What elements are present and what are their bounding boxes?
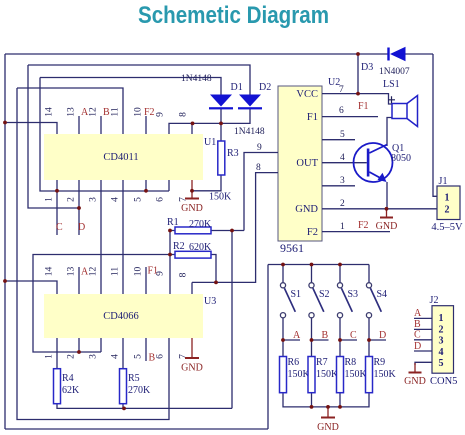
svg-text:5: 5 [340,130,345,140]
junction Q1 emitter ground node [385,207,389,211]
wire R1 left to U3 pin9 riser [170,231,175,295]
svg-text:A: A [414,308,422,319]
junction R2 right node [214,281,218,285]
svg-text:270K: 270K [128,385,151,396]
junction U1 pin5 [144,189,148,193]
diode D1 1N4148 [181,74,243,109]
wire U1 pin5 stub [145,180,147,191]
wire U3 pin4 to R5 [122,338,124,369]
wire net to D1 anode [40,78,221,95]
wire U3 pin14 supply stub [5,281,57,294]
svg-text:D: D [414,341,421,352]
wire J2 net D stub [414,350,432,352]
svg-text:3: 3 [439,336,444,347]
svg-text:J1: J1 [439,176,448,187]
svg-text:R2: R2 [173,241,185,252]
wire VCC node to speaker plus [358,94,392,104]
wire U3 pin3 stub [100,338,102,352]
svg-text:62K: 62K [62,385,80,396]
junction R8 rail [338,405,342,409]
junction net B stub [310,338,314,342]
svg-text:C: C [350,330,357,341]
svg-text:D1: D1 [231,82,243,93]
svg-text:11: 11 [111,267,121,276]
svg-text:4: 4 [111,354,121,359]
svg-text:R1: R1 [167,217,179,228]
svg-text:VCC: VCC [296,89,318,100]
svg-text:B: B [149,353,156,364]
junction R2 left node [168,253,172,257]
wire D3 cathode to J1 pin 1 [433,54,437,196]
junction U1 pin8 [191,122,195,126]
svg-text:C: C [56,222,63,233]
svg-text:13: 13 [67,267,77,277]
junction R7 rail [310,405,314,409]
svg-text:F1: F1 [307,112,318,123]
ground at resistor rail [317,407,339,433]
svg-text:4: 4 [439,347,444,358]
resistor R8 150K [337,357,368,393]
diode D2 1N4148 [234,82,271,137]
svg-text:D: D [379,330,386,341]
svg-text:11: 11 [111,107,121,116]
wire VCC riser to switch rail [267,265,269,430]
wire J2 net A stub [414,317,432,319]
wire R7 bottom stub [311,393,313,407]
svg-text:6: 6 [156,197,166,202]
svg-text:1N4148: 1N4148 [234,127,265,137]
svg-text:9: 9 [257,143,262,153]
svg-text:S3: S3 [348,289,359,300]
svg-text:5: 5 [134,354,144,359]
wire net C stub at S3 [340,339,357,341]
wire Q1 emitter to ground node [386,182,388,209]
wire U1 pin11 drop to U3 pin6 [17,88,169,420]
svg-text:U3: U3 [204,296,216,307]
svg-text:6: 6 [156,354,166,359]
svg-text:R7: R7 [316,357,328,368]
wire R1 node drop to bottom rail [231,231,233,409]
svg-text:A: A [81,267,89,278]
svg-text:R6: R6 [288,357,300,368]
svg-text:150K: 150K [345,369,368,380]
junction U3 pin14 rail [3,279,7,283]
wire U3 pin13 net A stub [78,267,80,294]
wire net to D2 anode [28,65,250,95]
resistor R3 150K [209,141,239,203]
svg-text:1: 1 [439,313,444,324]
junction U1 pin7 R3 [190,189,194,193]
svg-text:4: 4 [111,197,121,202]
svg-text:F1: F1 [358,101,369,112]
svg-text:1: 1 [445,193,450,204]
resistor R4 62K [54,369,81,404]
svg-text:J2: J2 [430,295,439,306]
svg-text:3: 3 [340,176,345,186]
junction D3 anode node [356,52,360,56]
svg-text:R3: R3 [227,148,239,159]
svg-text:150K: 150K [209,192,232,203]
switch S2 [309,283,330,318]
wire net A stub at S1 [283,339,300,341]
svg-text:Schemetic Diagram: Schemetic Diagram [138,2,329,29]
connector J2 CON5 [430,295,458,387]
wire net D2 left drop to U1 pin2 [28,65,79,208]
svg-text:620K: 620K [189,242,212,253]
wire U3 pin1 to R4 [56,338,58,369]
svg-text:150K: 150K [374,369,397,380]
svg-text:R9: R9 [374,357,386,368]
svg-text:2: 2 [340,199,345,209]
svg-text:3: 3 [89,197,99,202]
wire J2 net C stub [414,339,432,341]
svg-text:8: 8 [179,272,189,277]
svg-text:S1: S1 [291,289,302,300]
svg-text:150K: 150K [316,369,339,380]
svg-text:2: 2 [67,354,77,359]
svg-text:12: 12 [89,267,99,277]
IC U1 CD4011 body [44,134,216,180]
svg-text:150K: 150K [288,369,311,380]
junction ground rail [326,405,330,409]
resistor R5 270K [120,369,152,404]
svg-text:1N4148: 1N4148 [181,74,212,84]
svg-text:14: 14 [45,107,55,117]
wire U2 pin6 net F1 stub [322,116,378,118]
junction R5 bottom rail [122,407,126,411]
svg-text:GND: GND [317,422,339,433]
svg-text:CD4066: CD4066 [103,311,139,322]
wire net 8 drop to U3 pin8 [191,282,193,294]
svg-text:270K: 270K [189,219,212,230]
svg-text:10: 10 [134,107,144,117]
wire U2 pin2 to J1 pin2 [322,208,437,210]
svg-text:B: B [414,319,421,330]
wire J2 pin5 to ground [415,362,432,365]
svg-text:B: B [322,330,329,341]
resistor R7 150K [308,357,339,393]
svg-text:U1: U1 [204,137,216,148]
wire U1 pin12 net B stub [100,116,102,134]
svg-text:1N4007: 1N4007 [379,67,410,77]
svg-text:CON5: CON5 [430,376,457,387]
svg-text:9561: 9561 [280,241,304,255]
svg-text:GND: GND [376,221,398,232]
wire R5 bottom stub [122,404,124,409]
svg-text:1: 1 [340,222,345,232]
wire U2 pin7 to VCC node [322,54,358,94]
svg-text:2: 2 [445,205,450,216]
wire R1 right to node [211,230,244,232]
svg-text:14: 14 [45,267,55,277]
wire R6 bottom to rail [283,393,369,407]
svg-text:2: 2 [67,197,77,202]
svg-text:5: 5 [134,197,144,202]
svg-text:7: 7 [339,85,344,95]
svg-text:D3: D3 [361,62,373,73]
wire U2 pin1 net F2 stub [322,231,390,233]
wire net D1 left drop to U1 pin1 row [40,78,169,192]
svg-text:A: A [81,107,89,118]
wire R4 bottom to rail [57,404,232,409]
wire U3 pin2 stub [78,338,80,352]
wire switch S1 column [282,265,284,357]
svg-text:D: D [78,222,85,233]
wire D1 cathode to node [220,109,222,141]
wire speaker minus to Q1 collector [387,118,392,147]
wire U1 pin3 to U3 pin12 [100,180,102,294]
wire node 9 to U2 pin9 [244,153,278,231]
diode D3 1N4007 [361,47,410,77]
junction net C stub [338,338,342,342]
transistor Q1 8050 [354,143,412,182]
svg-text:GND: GND [181,363,203,374]
svg-text:2: 2 [439,325,444,336]
junction U1 pin2 [77,206,81,210]
wire U1 pin11 net [17,88,123,134]
wire net 8 to U2 pin8 [192,173,278,283]
wire U2 pin5 stub [322,139,355,141]
junction R1 right node [230,229,234,233]
wire U1 pin2 net D stub [78,180,80,235]
junction U3 pin2 [77,350,81,354]
wire U1 pin4 to U3 pin11 [122,180,124,294]
wire switch top rail [268,264,369,266]
ground at J2 pin5 [404,363,426,387]
wire VCC top rail from D3 to left [5,53,433,55]
svg-text:8050: 8050 [391,153,411,164]
resistor R6 150K [280,357,311,393]
wire U1 pin13 net A stub [78,116,80,134]
junction S2 rail [310,263,314,267]
wire U1 pin9 pin8 to diode node [169,123,221,134]
svg-text:B: B [103,107,110,118]
svg-text:D2: D2 [259,82,271,93]
IC U3 CD4066 body [44,294,216,338]
svg-text:R4: R4 [62,373,74,384]
wire U3 nest from R2 junction [33,255,170,353]
wire J2 net B stub [414,328,432,330]
wire D2 cathode to node [221,109,250,124]
svg-text:1: 1 [45,354,55,359]
resistor R2 620K [173,241,212,258]
IC U2 9561 body [278,77,340,255]
svg-text:4: 4 [340,153,345,163]
svg-text:CD4011: CD4011 [103,152,138,163]
ground at U2 pin2 line [376,209,398,232]
wire switch S2 column [311,265,313,357]
junction U2 pin7 node [356,92,360,96]
svg-text:R5: R5 [128,373,140,384]
svg-text:4.5–5V: 4.5–5V [431,222,463,233]
svg-text:GND: GND [295,204,318,215]
junction net D stub [367,338,371,342]
svg-text:GND: GND [404,376,426,387]
svg-text:F2: F2 [358,220,369,231]
resistor R9 150K [366,357,397,393]
svg-text:F2: F2 [307,227,318,238]
svg-text:F2: F2 [144,107,155,118]
wire R8 bottom stub [339,393,341,407]
svg-text:8: 8 [179,112,189,117]
wire U2 pin3 stub [322,185,355,187]
wire VCC left drop [4,54,6,429]
junction U1 pin14 rail [3,121,7,125]
wire R2 right jog down [211,255,216,283]
svg-text:R8: R8 [345,357,357,368]
svg-text:6: 6 [339,106,344,116]
switch S3 [337,283,358,318]
wire VCC bottom run [5,428,268,430]
resistor R1 270K [167,217,212,234]
svg-text:GND: GND [181,203,203,214]
svg-text:LS1: LS1 [383,79,400,90]
wire switch S3 column [339,265,341,357]
svg-text:S2: S2 [319,289,330,300]
junction diode node R3 [219,122,223,126]
connector J1 [431,176,463,233]
wire R3 bottom to U1 pin7 [192,175,221,191]
svg-text:13: 13 [67,107,77,117]
ground at U1 pin7 [181,180,203,214]
svg-text:5: 5 [439,358,444,369]
svg-text:S4: S4 [377,289,388,300]
wire U1 pin10 net F2 stub [145,116,147,134]
svg-text:8: 8 [256,163,261,173]
wire net D stub at S4 [369,339,386,341]
switch S1 [280,283,301,318]
wire U1 pin1 net C stub [56,180,58,235]
junction S1 rail [281,263,285,267]
svg-text:F1: F1 [148,266,159,277]
wire net B stub at S2 [312,339,329,341]
svg-text:1: 1 [45,197,55,202]
speaker LS1 [383,79,418,127]
ground at U3 pin7 [181,338,203,374]
wire U1 pin6 stub [168,180,170,191]
wire U3 pin5 net B stub [145,338,147,361]
junction S3 rail [338,263,342,267]
svg-text:OUT: OUT [296,158,318,169]
switch S4 [366,283,387,318]
svg-text:C: C [414,330,421,341]
svg-text:9: 9 [156,112,166,117]
svg-text:12: 12 [89,107,99,117]
wire U1 pin14 supply stub [5,123,57,135]
svg-text:10: 10 [134,267,144,277]
junction net A stub [281,338,285,342]
wire U2 pin4 to Q1 base [322,162,367,164]
junction R1 left node [168,229,172,233]
wire R2 left junction [170,254,175,256]
svg-text:3: 3 [89,354,99,359]
junction U1 pin1 [55,189,59,193]
wire switch S4 column [368,265,370,357]
wire U3 pin10 net F1 stub [145,267,147,294]
svg-text:A: A [293,330,301,341]
